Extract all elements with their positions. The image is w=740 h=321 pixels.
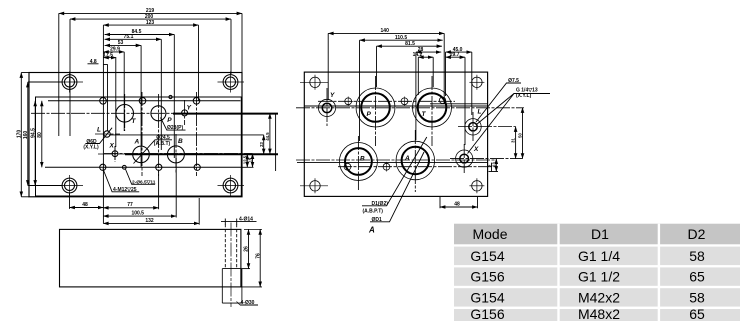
dim 200 [70, 18, 231, 20]
svg-text:13: 13 [491, 162, 496, 167]
svg-text:X: X [473, 146, 479, 153]
centerline col L [472, 112, 474, 141]
svg-text:100.5: 100.5 [131, 211, 144, 217]
centerline BA row [296, 159, 497, 161]
leader P label [161, 118, 186, 131]
plate outline right view [304, 72, 487, 196]
dim 53 [105, 44, 142, 46]
centerline col X [114, 146, 116, 162]
leader 2-6.5 [125, 169, 155, 185]
svg-text:14.2: 14.2 [413, 52, 423, 58]
mounting hole top-right [218, 72, 245, 93]
valve pattern rect R1 [36, 97, 242, 196]
leader D1 thread [370, 152, 424, 222]
rdim 5 right view [491, 163, 493, 172]
leader dia 7.5 [476, 83, 521, 122]
leader G 1/4 to L [477, 94, 551, 125]
leader X.Y.L label [85, 128, 112, 144]
col separator 1 [557, 224, 559, 321]
mounting hole bottom-left [57, 175, 84, 196]
svg-text:D1(Ø2): D1(Ø2) [372, 201, 389, 207]
counterbore bottom [222, 302, 242, 304]
centerline bolt row bottom [338, 166, 497, 168]
mounting hole top-left [57, 72, 84, 93]
port A left view [133, 146, 150, 163]
centerline TP row [31, 112, 186, 114]
svg-text:D2: D2 [688, 226, 706, 242]
dim 29.7 right view [446, 56, 466, 58]
centerline col A [141, 92, 143, 176]
dim 14.2 right view [418, 56, 433, 58]
vdim 170 [20, 73, 22, 197]
svg-text:L: L [97, 127, 101, 134]
svg-text:A: A [368, 226, 375, 235]
svg-text:4.8: 4.8 [90, 59, 97, 65]
svg-text:44.5: 44.5 [265, 132, 270, 141]
corner hole br [469, 178, 484, 193]
svg-text:G1 1/4: G1 1/4 [578, 248, 620, 264]
svg-text:Y: Y [187, 104, 192, 111]
centerline bolt row top [318, 100, 455, 102]
svg-text:4-M12▽25: 4-M12▽25 [113, 187, 137, 193]
svg-text:26: 26 [244, 246, 250, 252]
hole X left view [112, 151, 118, 157]
svg-text:81.5: 81.5 [405, 41, 415, 47]
svg-text:M48x2: M48x2 [578, 306, 620, 321]
svg-text:G154: G154 [470, 290, 504, 306]
corner hole bl [300, 178, 328, 193]
rdim 13 right view [495, 159, 497, 172]
rdim 23 [263, 135, 265, 154]
port B right view [339, 143, 377, 181]
svg-text:Ø7.5: Ø7.5 [508, 78, 519, 84]
vdim 76 side [259, 229, 261, 287]
svg-text:58: 58 [689, 248, 705, 264]
bolt hole top row 3 [193, 98, 200, 105]
dim 45 right view [446, 51, 472, 53]
centerline col T [431, 76, 433, 146]
solid row line top b [304, 105, 488, 107]
svg-text:Mode: Mode [472, 226, 507, 242]
port X right view [456, 150, 473, 167]
svg-text:Ø28(P): Ø28(P) [167, 125, 183, 131]
mounting hole bottom-right [218, 175, 245, 196]
vdim 26 side [248, 229, 250, 268]
svg-text:D1: D1 [591, 226, 609, 242]
vdim 160 [27, 82, 29, 186]
svg-text:50: 50 [518, 133, 523, 138]
dim 84.5 [105, 34, 175, 36]
label 4-30 underline [240, 304, 258, 306]
rdim 31 right view [515, 127, 517, 159]
svg-text:160: 160 [23, 131, 29, 140]
bdim 48 [70, 207, 104, 209]
svg-text:19: 19 [248, 157, 253, 162]
port Y right view [318, 99, 335, 116]
centerline col X [463, 144, 465, 173]
port T right view [413, 88, 452, 127]
counterbore right [241, 269, 243, 304]
svg-text:B: B [360, 156, 365, 163]
svg-text:4-Ø30: 4-Ø30 [241, 300, 255, 306]
dim 81.5 right view [377, 45, 443, 47]
bolt hole bottom row 3 [194, 164, 200, 170]
dim 4.8 [88, 63, 99, 65]
svg-text:17.5: 17.5 [103, 52, 113, 58]
svg-text:2-Ø6.5▽11: 2-Ø6.5▽11 [132, 179, 156, 185]
table row3 bg [454, 288, 740, 306]
section line A-A top thick [173, 113, 278, 115]
table row2 bg [454, 267, 740, 285]
port P right view [356, 88, 395, 127]
svg-text:(A.B.P.T): (A.B.P.T) [363, 208, 384, 214]
svg-text:(X.Y.L): (X.Y.L) [516, 93, 532, 99]
centerline col A [414, 130, 416, 192]
bolt hole top row 1 [100, 98, 107, 105]
svg-text:65: 65 [689, 306, 705, 321]
svg-text:77: 77 [127, 202, 133, 208]
stub bottom right [489, 171, 499, 173]
centerline PT row [296, 107, 524, 109]
svg-text:ØD1: ØD1 [372, 217, 383, 223]
svg-text:G156: G156 [470, 306, 504, 321]
centerline X row [104, 153, 253, 155]
dim 110.5 right view [360, 39, 443, 41]
svg-text:M42x2: M42x2 [578, 290, 620, 306]
pin hole bottom row [122, 165, 126, 169]
hole L left view [104, 131, 110, 137]
centerline col P [158, 94, 160, 176]
col separator 2 [658, 224, 660, 321]
bolt hole top row 2 [139, 98, 146, 105]
dim 75.1 [105, 38, 162, 40]
svg-text:(A.B.T): (A.B.T) [154, 141, 171, 147]
dim 14 side [221, 220, 257, 222]
svg-text:A: A [404, 155, 410, 162]
rdim 17.5 right [246, 154, 248, 167]
rdim line x275 [275, 113, 277, 171]
leader 4-M12 [103, 169, 139, 192]
svg-text:58: 58 [689, 290, 705, 306]
centerline X row [450, 158, 523, 160]
port L right view [465, 119, 481, 135]
centerline col P [375, 76, 377, 146]
hole centerline side [230, 223, 232, 308]
side view plate [60, 229, 241, 287]
bolt hole bottom row 2 [156, 164, 162, 170]
bdim 48 right view [440, 206, 478, 208]
bolt hole bottom 2 [382, 162, 391, 172]
rdim 50 right view [522, 108, 524, 159]
rdim 19 right [252, 154, 254, 168]
svg-text:76: 76 [255, 253, 261, 259]
svg-text:80: 80 [37, 132, 43, 138]
svg-text:53: 53 [118, 40, 124, 46]
bdim 77 [103, 207, 158, 209]
section line A-A bottom thick [125, 153, 278, 155]
leader D1 ports [362, 137, 427, 206]
svg-text:65: 65 [689, 269, 705, 285]
svg-text:123: 123 [146, 20, 155, 26]
svg-text:P: P [367, 111, 372, 118]
dim 28 right view [416, 51, 441, 53]
counterbore left [221, 269, 223, 304]
port B left view [167, 146, 184, 163]
vdim 80 [41, 101, 43, 168]
bolt hole top 2 [400, 97, 410, 107]
svg-text:G156: G156 [470, 269, 504, 285]
svg-text:(X.Y.L): (X.Y.L) [83, 144, 99, 150]
svg-text:4-Ø14: 4-Ø14 [239, 216, 253, 222]
dim 219 top [59, 12, 242, 14]
rdim 44.5 [269, 113, 271, 154]
corner hole tr [469, 75, 484, 90]
centerline col Y [326, 88, 328, 126]
corner hole tl [300, 75, 328, 90]
bolt hole bottom 1 [343, 163, 352, 170]
svg-text:48: 48 [82, 202, 88, 208]
port A right view [396, 141, 435, 180]
port P left view [151, 106, 166, 121]
svg-text:31: 31 [511, 138, 516, 143]
plate outline left view [29, 73, 242, 197]
dim 140 right view [328, 32, 444, 34]
centerline col Y [184, 100, 186, 125]
centerline col bolts right [196, 92, 198, 176]
leader G 1/4 to X [468, 94, 515, 154]
svg-text:B: B [178, 138, 183, 145]
svg-text:Y: Y [330, 92, 335, 99]
vdim 94.5 [34, 101, 36, 186]
hidden hole line left [224, 224, 226, 269]
centerline AB row [98, 153, 127, 155]
svg-text:L: L [478, 109, 482, 116]
bolt hole bottom row 1 [100, 164, 106, 170]
svg-text:132: 132 [145, 218, 154, 224]
table row1 bg [454, 247, 740, 266]
bolt row top line [48, 100, 241, 102]
hole Y left view [182, 110, 188, 116]
svg-text:23: 23 [259, 142, 264, 147]
dim 17.5 [103, 57, 116, 59]
solid row line bottom [297, 161, 488, 163]
centerline col X [114, 146, 116, 162]
svg-text:75.1: 75.1 [124, 34, 134, 40]
dim 123 [103, 24, 198, 26]
hidden hole line right [236, 224, 238, 269]
stub L row right [109, 134, 264, 136]
small hole on T [439, 97, 445, 103]
port T left view [116, 105, 134, 123]
svg-text:X: X [109, 143, 115, 150]
bolt row bottom line [45, 166, 241, 168]
svg-text:P: P [167, 117, 172, 124]
leader A.B.T label [134, 140, 173, 164]
svg-text:170: 170 [16, 130, 22, 139]
datum extension line x103 [102, 25, 104, 223]
svg-text:G1 1/2: G1 1/2 [578, 269, 620, 285]
bdim 100.5 [103, 215, 176, 217]
centerline col T [124, 94, 126, 131]
centerline L row [458, 126, 516, 128]
pin hole top row [169, 95, 172, 98]
bolt hole top 1 [344, 97, 354, 107]
table row4 bg [454, 309, 740, 321]
svg-text:94.5: 94.5 [30, 128, 36, 138]
counterbore top [222, 268, 242, 270]
bdim 132 [103, 222, 199, 224]
centerline col B [175, 134, 177, 173]
svg-text:140: 140 [381, 28, 390, 34]
dim 29.9 [103, 51, 124, 53]
svg-text:Ø24.5: Ø24.5 [156, 135, 170, 141]
svg-text:29.7: 29.7 [450, 52, 460, 58]
centerline L row [95, 133, 120, 135]
stub bolt row right [241, 166, 254, 168]
solid row line top a [430, 103, 488, 105]
svg-text:G154: G154 [470, 248, 504, 264]
svg-text:A: A [134, 139, 140, 146]
centerline col B [357, 136, 359, 190]
svg-text:48: 48 [454, 202, 460, 208]
table header bg [454, 224, 740, 245]
